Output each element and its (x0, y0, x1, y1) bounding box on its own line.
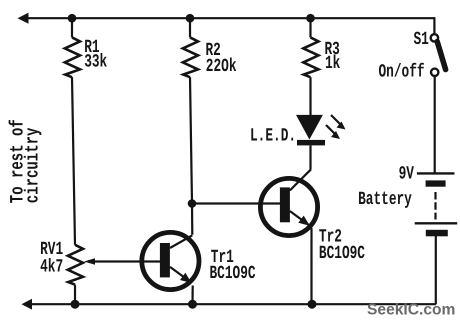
svg-text:SeekIC.com: SeekIC.com (367, 302, 455, 319)
svg-text:On/off: On/off (379, 61, 425, 83)
svg-text:L.E.D.: L.E.D. (250, 124, 296, 146)
svg-text:Battery: Battery (358, 188, 412, 210)
svg-text:22Ok: 22Ok (206, 55, 237, 77)
svg-text:S1: S1 (414, 28, 430, 50)
svg-text:BC1O9C: BC1O9C (210, 262, 256, 284)
svg-text:33k: 33k (84, 51, 107, 73)
svg-text:BC1O9C: BC1O9C (319, 242, 365, 264)
svg-text:9V: 9V (399, 162, 415, 184)
svg-text:4k7: 4k7 (40, 256, 63, 278)
svg-text:1k: 1k (325, 52, 341, 74)
svg-text:circuitry: circuitry (23, 127, 45, 203)
